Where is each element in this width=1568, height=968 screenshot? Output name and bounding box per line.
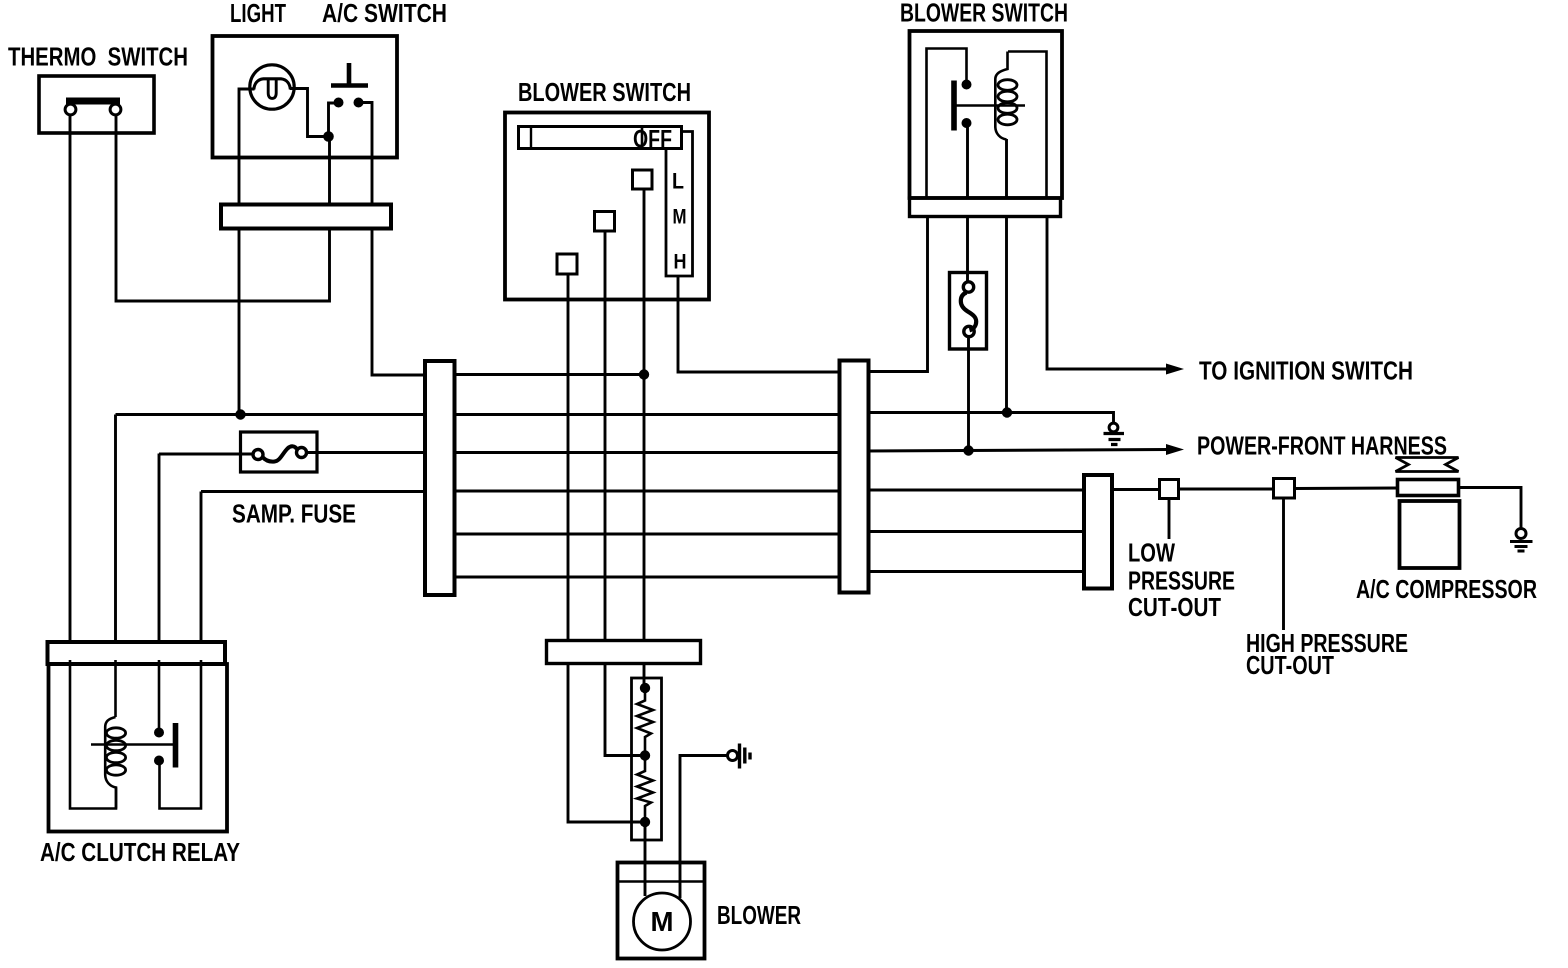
blower relay armature bar (951, 81, 957, 131)
wire A/C switch left contact to junction node (329, 103, 339, 137)
blower motor circle (634, 893, 691, 950)
svg-text:CUT-OUT: CUT-OUT (1246, 650, 1334, 680)
wire blower switch H terminal to bus bar 2 (678, 277, 845, 372)
wire low pressure cut-out bottom lead (1168, 499, 1171, 540)
connector bar below light/AC switch box (221, 205, 391, 229)
connector bar below blower relay (910, 198, 1061, 217)
A/C clutch relay left loop to coil (70, 660, 116, 809)
svg-text:TO IGNITION SWITCH: TO IGNITION SWITCH (1199, 356, 1413, 386)
blower motor box inner line (618, 880, 705, 883)
wire low pressure cut-out to high pressure cut-out (1179, 488, 1273, 491)
connector bar top of A/C clutch relay (48, 642, 226, 664)
wire fuse line down to A/C clutch relay contact (158, 454, 161, 653)
wire compressor pulley to ground G2 (1458, 488, 1521, 530)
wire high pressure cut-out bottom lead (1282, 498, 1285, 630)
arrowhead power-front harness (1166, 444, 1184, 455)
wire blower relay contact down through S fuse to harness line (968, 126, 969, 450)
A/C compressor pulley (1398, 480, 1459, 496)
blower relay coil (995, 52, 1007, 140)
wire resistor bottom to blower motor (644, 822, 647, 896)
wire relay line D down to A/C clutch relay (200, 492, 203, 653)
wire bus line B from corner to bus bar 1 (116, 413, 428, 416)
A/C switch contact dot right (354, 98, 364, 108)
blower switch terminal square L (633, 170, 653, 189)
svg-text:H: H (674, 251, 687, 274)
wire bus line B down to A/C clutch relay coil (114, 415, 117, 653)
wire bus line F bus bar 1 to small bus bar (453, 572, 1090, 578)
blower switch position channel (666, 132, 693, 277)
thermal fuse terminals (963, 282, 973, 292)
wire blower motor right lead to ground G3 (680, 756, 728, 899)
wire blower switch L terminal down to resistor top (643, 189, 646, 688)
wire bus bar 2 up to blower relay left bracket (865, 210, 928, 372)
lamp bulb circle (250, 65, 294, 109)
A/C clutch relay armature bar (173, 723, 179, 768)
lamp filament slit (268, 80, 276, 99)
node fuse wire to harness line (963, 445, 973, 455)
wire blower switch OFF terminal down to resistor bottom tap (568, 274, 645, 822)
arrowhead to ignition switch (1166, 364, 1184, 375)
svg-text:SAMP. FUSE: SAMP. FUSE (232, 499, 356, 529)
blower relay armature link (956, 104, 1025, 106)
bus bar 2 (right vertical connector bar) (840, 361, 869, 593)
wire thermo-switch left terminal to A/C clutch relay (69, 114, 72, 652)
thermo switch box (39, 76, 154, 133)
svg-text:OFF: OFF (633, 126, 672, 154)
wire compressor feed line from bus bar 1 to small bus bar (453, 490, 1090, 491)
wire bus line E bus bar 1 to small bus bar (453, 532, 1090, 535)
svg-text:LOW: LOW (1128, 538, 1175, 568)
node resistor mid tap (640, 750, 650, 760)
blower switch terminal square OFF (557, 254, 577, 274)
A/C compressor belt (1396, 458, 1459, 472)
A/C switch contact dot left (334, 98, 344, 108)
blower switch box (dash panel) (505, 113, 709, 300)
lamp inner dome (254, 79, 291, 90)
svg-text:BLOWER SWITCH: BLOWER SWITCH (518, 77, 691, 107)
wire fuse line from corner through SAMP fuse to bus bar 1 (159, 453, 427, 455)
ground G1 (bus line B) (1104, 434, 1125, 445)
thermo switch contact bar (66, 98, 120, 105)
node resistor bottom tap (640, 817, 650, 827)
blower relay contact dots (962, 80, 972, 90)
thermal fuse box below blower relay (950, 273, 987, 350)
svg-text:BLOWER: BLOWER (717, 900, 801, 930)
wire bus line B from bus bar 1 to ground G1 (453, 413, 1114, 425)
svg-text:L: L (672, 169, 684, 194)
A/C clutch relay coil (105, 717, 116, 809)
low pressure cut-out connector (1160, 480, 1179, 499)
blower resistor box (632, 678, 662, 840)
svg-text:BLOWER SWITCH: BLOWER SWITCH (900, 0, 1068, 28)
node A/C switch junction (323, 131, 334, 142)
A/C compressor body (1400, 501, 1460, 568)
node light to bus line B (235, 409, 245, 419)
blower relay right bracket (1008, 52, 1047, 199)
svg-text:CUT‑OUT: CUT‑OUT (1128, 592, 1221, 622)
wire light lamp down to bus line node (239, 89, 255, 415)
ground G2 (compressor) (1516, 529, 1526, 539)
thermo switch terminal circles (65, 104, 76, 115)
wire top bus segment bus bar 1 to blower resistor wire (453, 373, 644, 376)
wire A/C switch right contact down to bus bar 1 (359, 103, 428, 376)
wire blower switch M terminal down to resistor mid tap (605, 231, 645, 756)
SAMP fuse link (263, 446, 297, 461)
wire blower relay right bracket to ignition arrow (1047, 210, 1168, 369)
svg-text:PRESSURE: PRESSURE (1128, 566, 1235, 596)
wire blower relay coil down to ground bus line (1005, 139, 1008, 413)
A/C clutch relay outer box (49, 664, 228, 832)
blower resistor element 1 (637, 693, 653, 752)
svg-text:THERMO SWITCH: THERMO SWITCH (8, 42, 188, 72)
blower switch slider end cap (530, 128, 532, 148)
thermal fuse S link (961, 293, 976, 331)
SAMP fuse box (241, 432, 318, 472)
svg-text:A/C SWITCH: A/C SWITCH (322, 0, 447, 28)
light / A/C switch box (213, 36, 398, 158)
node coil wire to ground line (1002, 407, 1012, 417)
A/C clutch relay coil top lead (114, 660, 117, 717)
A/C clutch relay contact dots (154, 728, 164, 738)
bus bar 1 (left vertical connector bar) (425, 361, 455, 595)
svg-text:A/C COMPRESSOR: A/C COMPRESSOR (1356, 574, 1537, 604)
blower switch OFF cell divider (641, 127, 644, 149)
blower switch terminal square M (595, 212, 615, 232)
svg-text:LIGHT: LIGHT (230, 0, 286, 28)
A/C clutch relay contact bottom loop (160, 660, 202, 809)
wire lamp right lead to A/C switch junction (290, 89, 329, 137)
svg-text:M: M (651, 906, 674, 937)
connector bar above blower resistor (547, 641, 701, 664)
blower relay left bracket (927, 49, 967, 199)
wire small bus bar to low pressure cut-out (1107, 488, 1159, 491)
svg-text:POWER-FRONT HARNESS: POWER-FRONT HARNESS (1197, 431, 1447, 461)
A/C switch actuator T (331, 63, 368, 86)
wire power-front harness line from bus bar 1 to arrow (453, 450, 1168, 453)
node resistor top (640, 683, 650, 693)
blower switch slider bar (519, 127, 682, 149)
svg-text:A/C CLUTCH RELAY: A/C CLUTCH RELAY (40, 837, 240, 867)
small bus bar (right end connector) (1084, 475, 1112, 589)
A/C clutch relay armature link (91, 743, 174, 745)
wire high pressure cut-out to compressor pulley (1295, 487, 1398, 490)
blower resistor element 2 (637, 760, 653, 817)
svg-text:M: M (673, 206, 687, 229)
node top bus segment to resistor wire (639, 369, 649, 379)
SAMP fuse terminals (253, 450, 263, 460)
high pressure cut-out connector (1274, 479, 1295, 499)
A/C clutch relay contact top lead (158, 660, 161, 728)
wire thermo-switch right terminal to A/C switch contact junction (116, 114, 330, 301)
ground G3 (blower motor) (728, 751, 738, 761)
blower motor box (618, 863, 705, 959)
wire relay line D from corner to bus bar 1 (201, 490, 427, 493)
blower relay outer box (910, 31, 1063, 198)
